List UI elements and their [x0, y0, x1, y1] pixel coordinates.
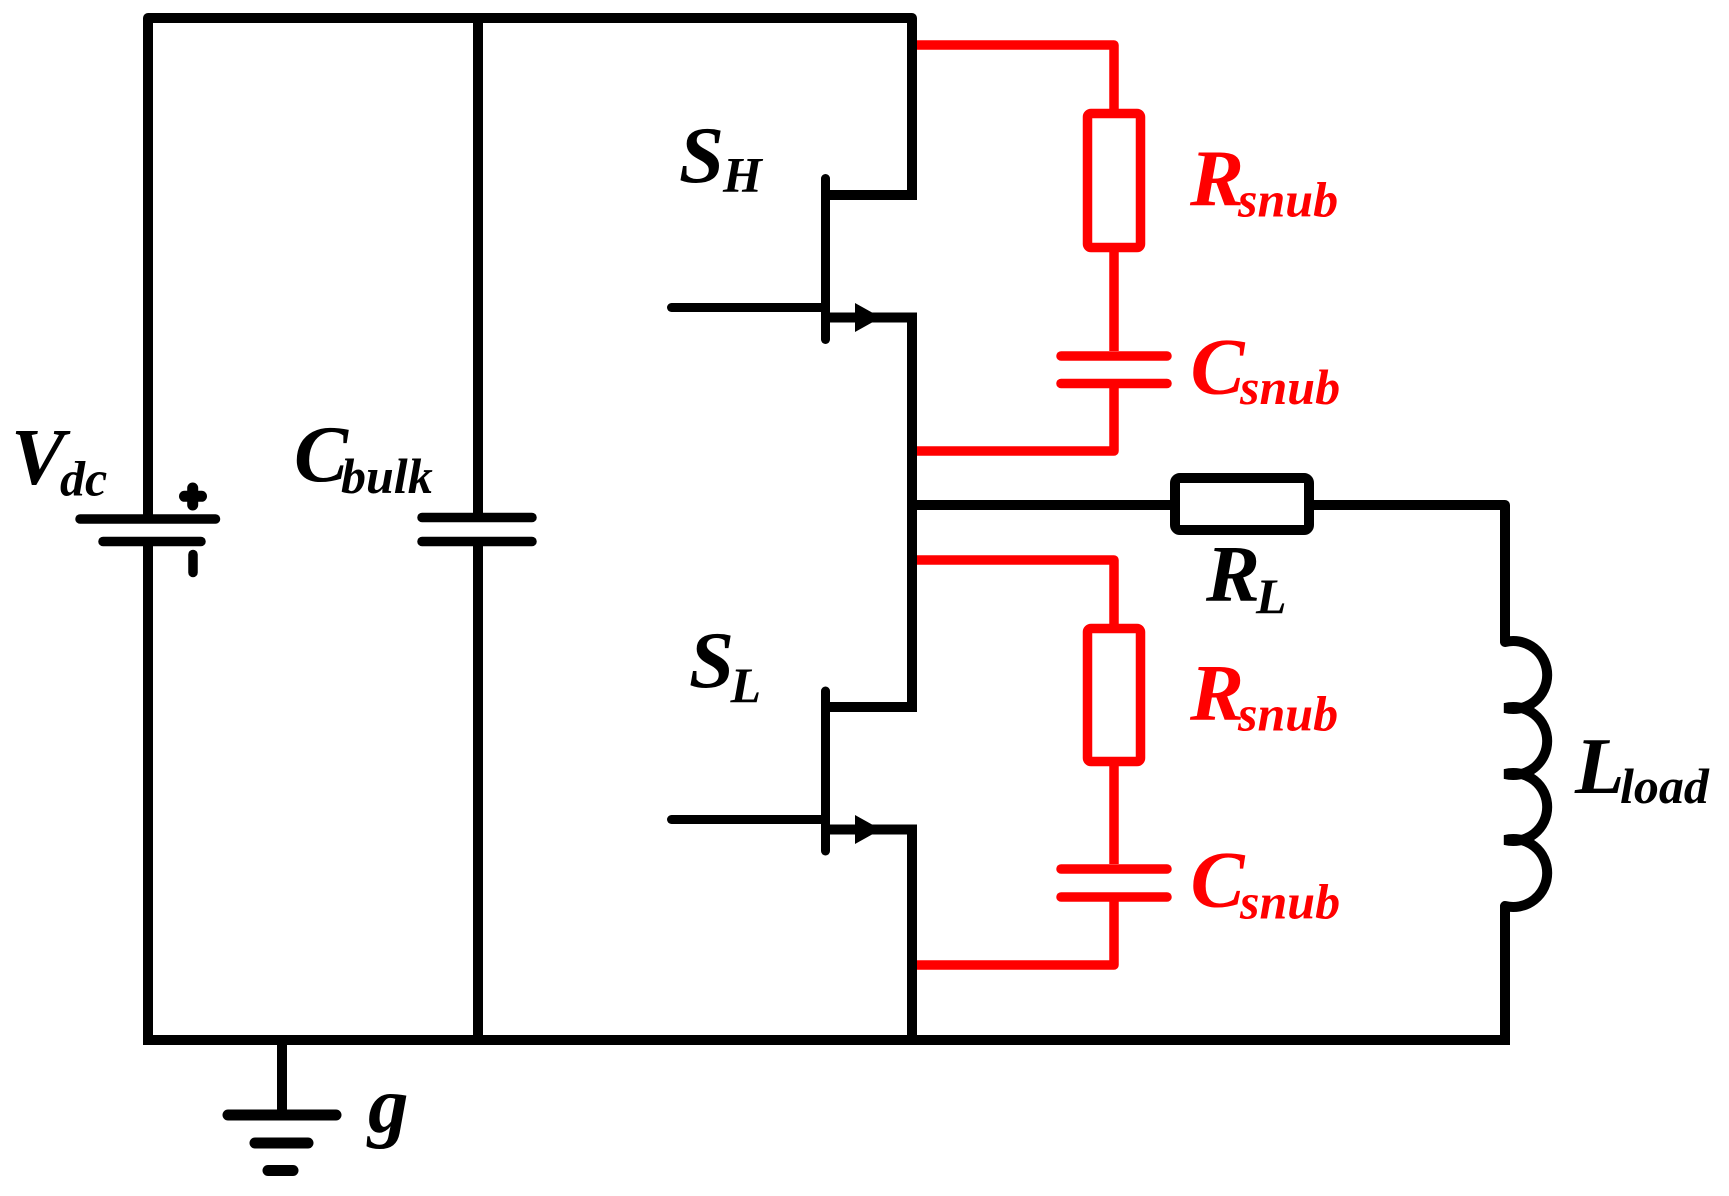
- svg-text:H: H: [722, 147, 764, 203]
- svg-text:C: C: [1191, 835, 1246, 925]
- svg-text:g: g: [366, 1060, 409, 1150]
- svg-text:dc: dc: [60, 451, 107, 507]
- svg-text:snub: snub: [1237, 172, 1338, 228]
- svg-text:snub: snub: [1239, 874, 1340, 930]
- svg-text:load: load: [1620, 758, 1710, 814]
- svg-text:L: L: [1255, 568, 1287, 624]
- svg-text:L: L: [1574, 721, 1624, 811]
- svg-text:S: S: [679, 110, 724, 200]
- svg-text:snub: snub: [1237, 686, 1338, 742]
- svg-text:R: R: [1189, 648, 1244, 738]
- svg-text:C: C: [1191, 322, 1246, 412]
- svg-text:R: R: [1205, 529, 1260, 619]
- svg-text:L: L: [730, 657, 762, 713]
- svg-text:S: S: [689, 615, 734, 705]
- svg-text:snub: snub: [1239, 359, 1340, 415]
- svg-text:R: R: [1189, 134, 1244, 224]
- svg-text:bulk: bulk: [341, 448, 433, 504]
